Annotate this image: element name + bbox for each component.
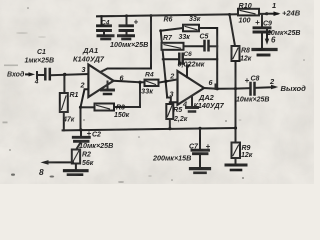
op-amp DA2 K140UD7	[169, 63, 224, 111]
wire top supply rail	[97, 14, 267, 16]
wire DA2 output line	[204, 85, 250, 91]
capacitor C3 (0,1mk bypass)	[98, 16, 114, 39]
resistor R1 47k	[60, 74, 79, 130]
arrow pin 6 (down)	[265, 30, 276, 45]
ground R2	[65, 171, 88, 175]
capacitor C2 10mk x 25V	[73, 129, 113, 150]
paper mottle	[0, 0, 1, 1]
wire network left rail	[161, 31, 170, 129]
capacitor C8 10mk x 25V output	[236, 76, 275, 104]
arrow pin 8 (left)	[39, 160, 73, 177]
wire power drop to DA1 pin 7	[101, 14, 153, 72]
resistor R4 33k	[141, 71, 178, 95]
wire DA2 pin3 from bias rail	[167, 98, 177, 105]
resistor R7 33k	[162, 34, 205, 50]
scan noise specks	[3, 32, 242, 178]
resistor R9 12k	[232, 143, 253, 164]
wire bias rail	[63, 126, 238, 131]
output Vyhod arrow pin 2	[269, 77, 306, 93]
wire DA1 output to R4	[114, 81, 145, 84]
resistor R5 2,2k	[166, 104, 187, 123]
wire DA1 pin2 column	[81, 89, 89, 130]
op-amp DA1 K140UD7	[73, 46, 125, 97]
pin 4 ground DA2	[187, 97, 198, 112]
ground R9	[226, 165, 246, 170]
network top wire with jog to output	[159, 28, 217, 89]
node +24V with arrow pin 1	[265, 1, 301, 18]
ground symbol inside DA1	[102, 82, 114, 95]
resistor R6 33k	[164, 16, 201, 31]
capacitor C9 10mk x 25V	[253, 15, 300, 55]
resistor R8 12k	[228, 13, 252, 143]
resistor R10 100	[238, 1, 259, 25]
capacitor C4 100mk x 25V	[110, 14, 148, 49]
input Vhod arrow pin 4	[7, 71, 45, 86]
capacitor C1 1mk x 25V	[25, 49, 89, 79]
capacitor C7 200mk x 15V	[152, 128, 211, 172]
resistor R2 56k	[72, 150, 94, 170]
resistor R3 150k feedback	[79, 82, 140, 119]
pin 7 tick DA2	[186, 67, 188, 78]
capacitor C5	[200, 34, 218, 51]
capacitor C6 0,022mk	[163, 51, 217, 68]
